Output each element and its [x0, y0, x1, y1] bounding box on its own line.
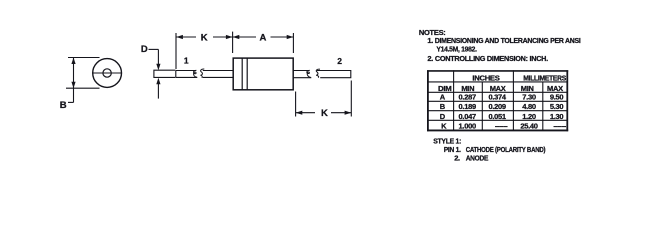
polarity band	[242, 58, 247, 90]
svg-text:Y14.5M, 1982.: Y14.5M, 1982.	[436, 45, 476, 54]
svg-text:D: D	[141, 44, 148, 55]
svg-text:1.30: 1.30	[550, 112, 564, 121]
lead break symbol left	[194, 69, 205, 78]
svg-text:4.80: 4.80	[522, 102, 536, 111]
table header row 2: DIM MIN MAX MIN MAX	[438, 84, 563, 93]
svg-text:1.20: 1.20	[522, 112, 536, 121]
svg-text:7.30: 7.30	[522, 93, 536, 102]
svg-text:---: ---	[495, 121, 509, 130]
svg-text:1.000: 1.000	[459, 121, 476, 130]
right lead (pin 2)	[293, 71, 351, 78]
svg-text:A: A	[260, 32, 267, 43]
dimension A (body)	[233, 32, 294, 53]
svg-text:2: 2	[337, 56, 342, 66]
dimension K (bottom right)	[296, 81, 352, 120]
svg-text:D: D	[440, 112, 446, 121]
dimension table grid	[427, 70, 568, 131]
svg-text:B: B	[60, 100, 67, 111]
svg-text:DIM: DIM	[438, 84, 451, 93]
table row B	[440, 102, 564, 111]
svg-text:MAX: MAX	[490, 84, 506, 93]
svg-text:K: K	[321, 108, 328, 119]
svg-text:MILLIMETERS: MILLIMETERS	[523, 73, 566, 82]
svg-text:0.287: 0.287	[459, 93, 476, 102]
svg-text:---: ---	[553, 121, 567, 130]
diode body	[233, 58, 293, 90]
svg-text:2.: 2.	[454, 153, 460, 162]
svg-text:K: K	[441, 121, 447, 130]
dimension K (top left)	[176, 32, 233, 69]
svg-text:2.: 2.	[427, 54, 433, 63]
svg-text:0.047: 0.047	[459, 112, 476, 121]
svg-text:0.189: 0.189	[459, 102, 476, 111]
dimension B	[60, 58, 100, 112]
svg-text:9.50: 9.50	[550, 93, 564, 102]
lead break symbol right	[307, 69, 320, 77]
svg-text:ANODE: ANODE	[466, 153, 489, 162]
svg-text:A: A	[440, 93, 446, 102]
svg-text:CONTROLLING DIMENSION: INCH.: CONTROLLING DIMENSION: INCH.	[435, 54, 548, 63]
table header row 1: INCHES / MILLIMETERS	[472, 73, 566, 82]
notes text block	[419, 28, 581, 63]
svg-text:MAX: MAX	[547, 84, 563, 93]
svg-text:MIN: MIN	[521, 84, 534, 93]
svg-text:INCHES: INCHES	[472, 73, 499, 82]
svg-text:0.051: 0.051	[488, 112, 505, 121]
left lead (pin 1)	[154, 70, 234, 77]
table row K	[441, 121, 567, 130]
svg-text:1.: 1.	[427, 36, 433, 45]
svg-text:25.40: 25.40	[520, 121, 537, 130]
svg-text:B: B	[440, 102, 446, 111]
svg-text:1: 1	[184, 55, 189, 65]
style / pin function text block	[433, 136, 546, 162]
svg-text:0.374: 0.374	[488, 93, 506, 102]
svg-text:STYLE 1:: STYLE 1:	[433, 136, 461, 145]
table row D	[440, 112, 564, 121]
svg-text:5.30: 5.30	[550, 102, 564, 111]
table row A	[440, 93, 564, 102]
end view: lead cross-section circle	[93, 59, 122, 88]
svg-text:K: K	[201, 32, 208, 43]
dimension D (lead diameter)	[141, 44, 161, 99]
svg-text:MIN: MIN	[461, 84, 474, 93]
svg-text:0.209: 0.209	[488, 102, 505, 111]
